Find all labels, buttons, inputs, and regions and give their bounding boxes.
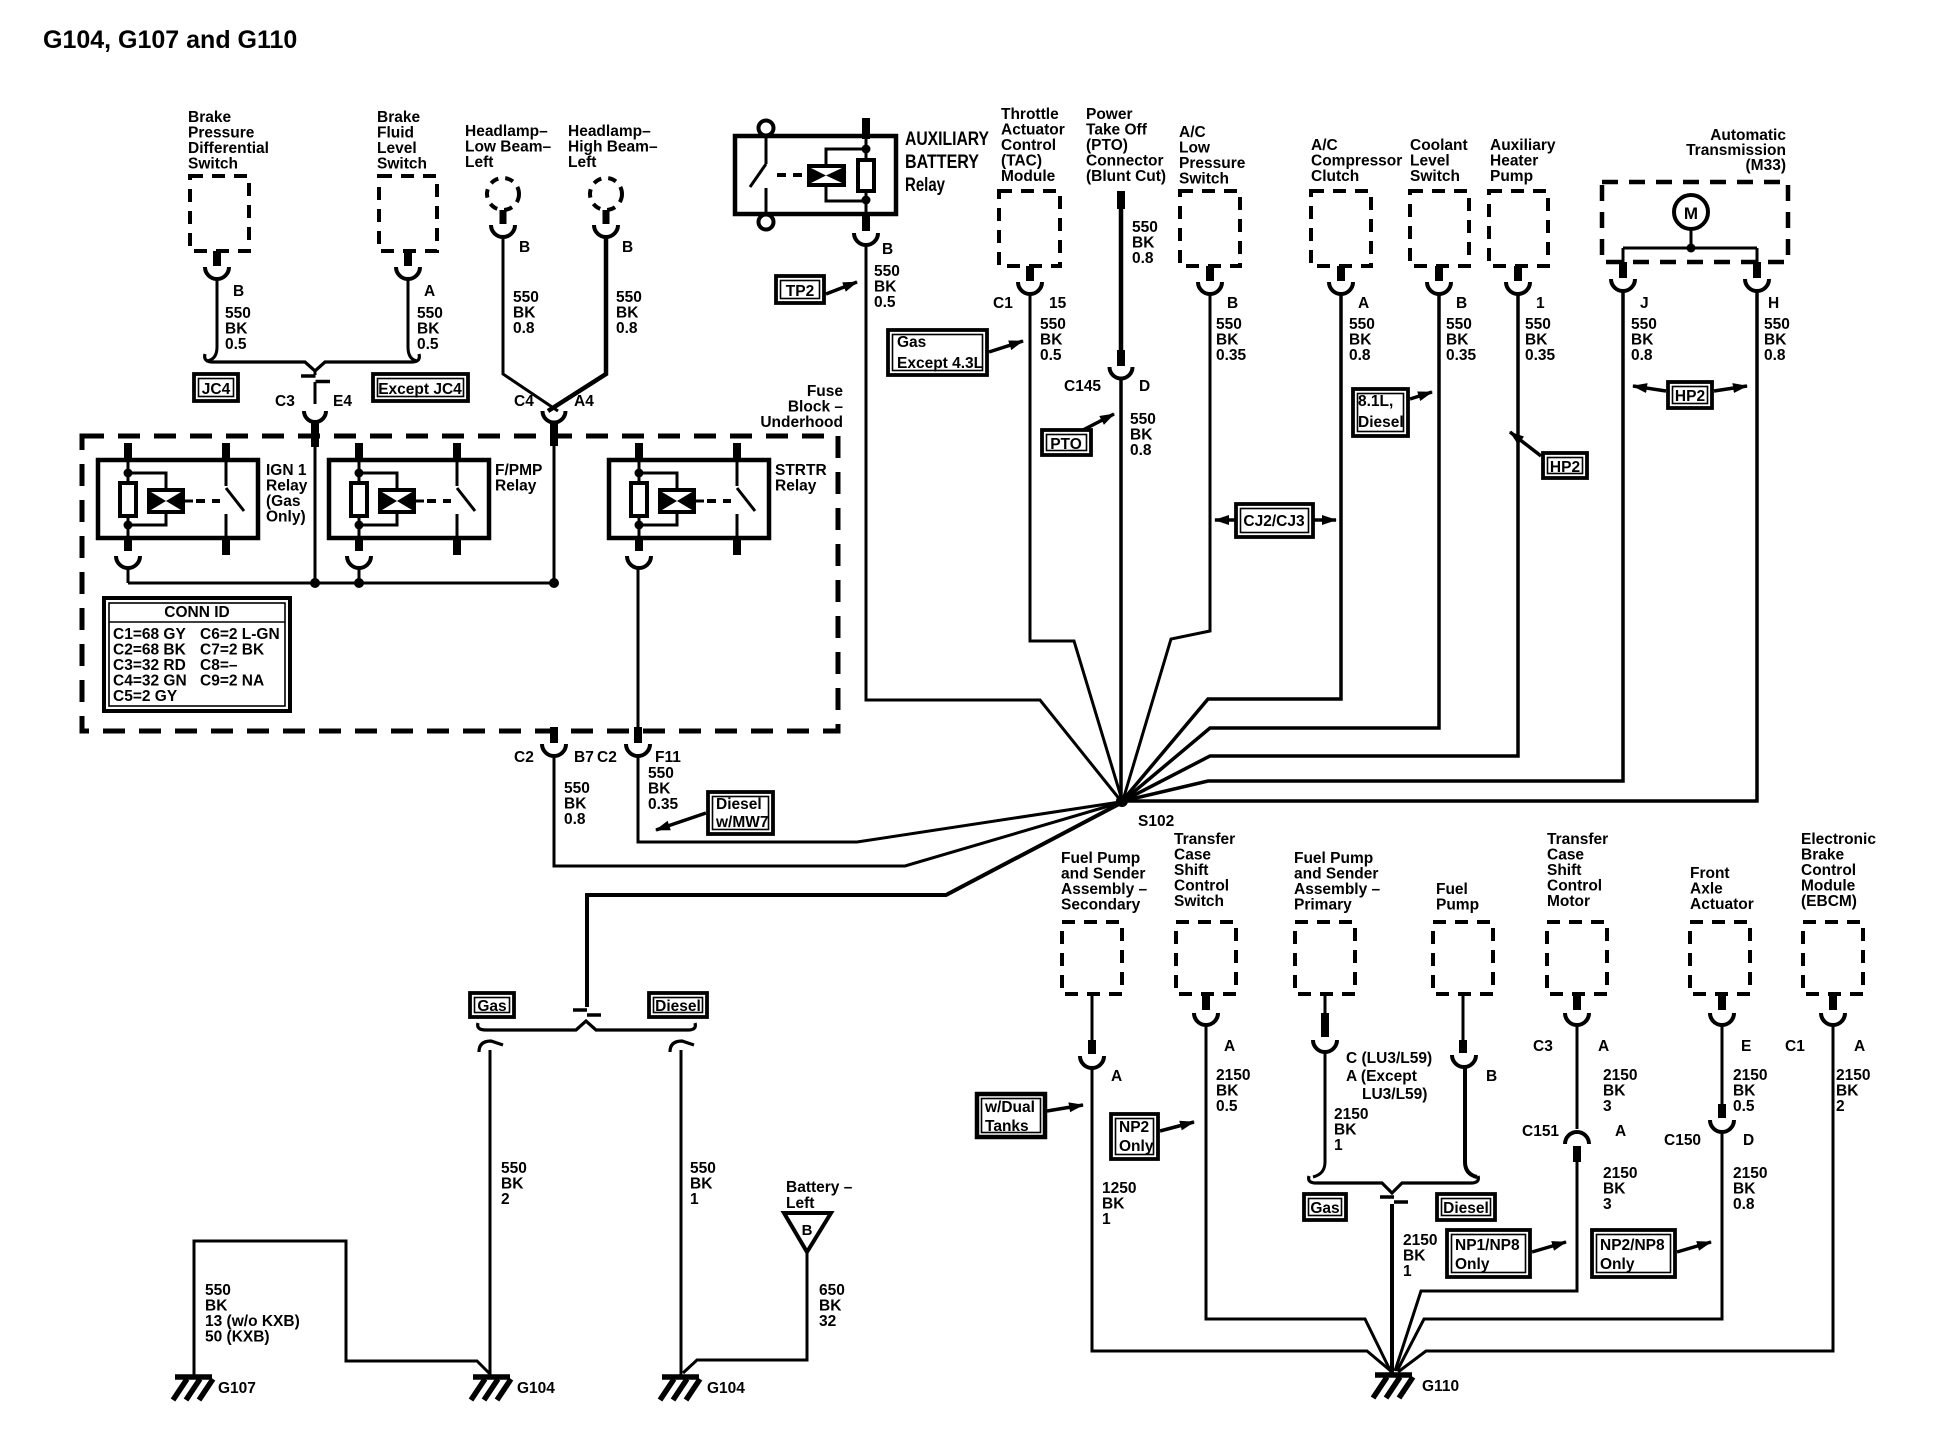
svg-text:1: 1	[1334, 1137, 1343, 1154]
wire label 550 BK 0.8 (J)	[1631, 316, 1657, 364]
svg-text:BK: BK	[1216, 332, 1239, 349]
svg-text:C1: C1	[1785, 1038, 1805, 1055]
svg-text:Heater: Heater	[1490, 153, 1538, 170]
svg-text:Pressure: Pressure	[188, 125, 255, 142]
svg-text:and Sender: and Sender	[1294, 866, 1378, 883]
svg-text:15: 15	[1049, 295, 1067, 312]
svg-text:50 (KXB): 50 (KXB)	[205, 1329, 270, 1346]
label box HP2 with arrow (aux heater pump)	[1510, 432, 1587, 478]
pin B label (high beam)	[622, 239, 633, 256]
svg-text:Brake: Brake	[1801, 847, 1844, 864]
svg-text:C4=32 GN: C4=32 GN	[113, 673, 187, 690]
brace joining fuel pump primary wires (Gas/Diesel)	[1309, 1176, 1479, 1193]
STRTR relay output wire inside fuse block	[637, 566, 640, 730]
wire 550 BK 0.8 transmission H to S102	[1123, 289, 1757, 801]
assembly: Fuel Pump and Sender Assembly - Primary	[1294, 850, 1381, 994]
wire 550 BK 2 gas branch to G104	[479, 1041, 503, 1376]
svg-text:Switch: Switch	[377, 156, 427, 173]
wire label 550 BK 0.5	[225, 305, 251, 353]
relay K1: IGN 1 Relay (Gas Only)	[98, 443, 308, 568]
svg-text:Case: Case	[1174, 847, 1211, 864]
lamp: Headlamp Low Beam Left	[465, 123, 552, 237]
svg-text:Electronic: Electronic	[1801, 831, 1876, 848]
wire 2150 BK 1 fuel pump primary to gas/diesel brace	[1313, 1050, 1325, 1177]
svg-text:G107: G107	[218, 1380, 256, 1397]
svg-text:650: 650	[819, 1282, 845, 1299]
fuse block underhood dashed enclosure	[82, 436, 838, 731]
wire label 2150 BK 0.5 (front axle)	[1733, 1067, 1767, 1115]
svg-text:BK: BK	[417, 321, 440, 338]
pin A label (transfer case switch)	[1224, 1038, 1235, 1055]
wire label 550 BK 0.8 (lower PTO)	[1130, 411, 1156, 459]
terminal labels C3 and A (transfer case motor)	[1533, 1038, 1609, 1055]
label box Diesel w/MW7 with arrow	[656, 792, 773, 834]
terminal labels C4 and A4	[514, 393, 594, 410]
ground label G107	[218, 1380, 256, 1397]
wire 550 BK 0.8 A/C compressor to S102	[1123, 292, 1341, 800]
svg-text:Transfer: Transfer	[1174, 831, 1235, 848]
svg-text:Take Off: Take Off	[1086, 122, 1148, 139]
svg-text:G104: G104	[517, 1380, 555, 1397]
svg-text:BK: BK	[1132, 235, 1155, 252]
label box TP2 with arrow	[776, 276, 857, 303]
wire label 2150 BK 3 (lower)	[1603, 1165, 1637, 1213]
wire 550 BK 0.8 PTO to S102	[1119, 377, 1123, 801]
svg-text:BK: BK	[1603, 1083, 1626, 1100]
svg-text:Diesel: Diesel	[1443, 1200, 1489, 1217]
wire label 550 BK 2	[501, 1160, 527, 1208]
svg-text:Gas: Gas	[1310, 1200, 1339, 1217]
svg-text:8.1L,: 8.1L,	[1358, 393, 1393, 410]
svg-text:C5=2 GY: C5=2 GY	[113, 688, 178, 705]
switch: A/C Low Pressure Switch	[1179, 124, 1246, 294]
terminal labels C1 and 15	[993, 295, 1067, 312]
svg-text:2150: 2150	[1836, 1067, 1870, 1084]
svg-text:Brake: Brake	[377, 109, 420, 126]
brace splitting to Gas and Diesel grounds	[478, 1021, 696, 1030]
label box 8.1L Diesel with arrow	[1353, 389, 1432, 436]
inline connector C145 pin D	[1110, 350, 1133, 379]
splice label S102	[1138, 813, 1174, 830]
svg-text:NP2/NP8: NP2/NP8	[1600, 1237, 1665, 1254]
svg-text:Fuel Pump: Fuel Pump	[1294, 850, 1373, 867]
label box Gas (left splitter)	[470, 993, 514, 1017]
svg-text:B: B	[1227, 295, 1238, 312]
wire label 550 BK 0.35	[648, 765, 679, 813]
svg-text:Except JC4: Except JC4	[378, 381, 462, 398]
wire 550 BK 0.35 A/C low pressure to S102	[1123, 292, 1210, 800]
svg-text:A: A	[1854, 1038, 1865, 1055]
wire label 550 BK 0.35	[1216, 316, 1247, 364]
svg-text:C8=–: C8=–	[200, 657, 238, 674]
svg-text:STRTR: STRTR	[775, 462, 827, 479]
splice break symbol above gas/diesel brace	[573, 1010, 601, 1015]
terminal labels C2 and B7	[514, 749, 594, 766]
splice S102 junction	[1116, 795, 1128, 807]
svg-text:Differential: Differential	[188, 140, 269, 157]
svg-text:Relay: Relay	[266, 478, 308, 495]
svg-text:2150: 2150	[1733, 1165, 1767, 1182]
wire label 550 BK 0.8	[513, 289, 539, 337]
svg-text:HP2: HP2	[1550, 459, 1580, 476]
svg-text:G110: G110	[1422, 1378, 1459, 1395]
inline connector pin A (fuel pump secondary)	[1080, 994, 1104, 1068]
switch: Coolant Level Switch	[1410, 137, 1469, 294]
svg-text:(M33): (M33)	[1746, 157, 1786, 174]
label box NP2/NP8 Only with arrow	[1592, 1230, 1711, 1277]
wire label 550 BK 0.5	[417, 305, 443, 353]
svg-text:Power: Power	[1086, 106, 1133, 123]
label box JC4	[194, 374, 238, 401]
title G104, G107 and G110	[43, 26, 297, 54]
label box CJ2/CJ3 with arrows both sides	[1215, 504, 1336, 537]
svg-text:Left: Left	[786, 1195, 814, 1212]
svg-text:C9=2 NA: C9=2 NA	[200, 673, 264, 690]
svg-text:Assembly –: Assembly –	[1294, 881, 1381, 898]
svg-text:(Blunt Cut): (Blunt Cut)	[1086, 168, 1166, 185]
svg-text:A: A	[1615, 1123, 1626, 1140]
svg-text:Diesel: Diesel	[716, 796, 762, 813]
svg-text:Fuel Pump: Fuel Pump	[1061, 850, 1140, 867]
wire 550 BK 0.5 from brake pressure switch to JC4 splice	[206, 277, 217, 361]
pin E label (front axle actuator)	[1741, 1038, 1751, 1055]
wire label 2150 BK 0.8	[1733, 1165, 1767, 1213]
pin B label (coolant level switch)	[1456, 295, 1467, 312]
svg-text:Axle: Axle	[1690, 881, 1723, 898]
relay K2: F/PMP Relay	[329, 443, 542, 568]
svg-text:Pump: Pump	[1436, 897, 1479, 914]
svg-text:Tanks: Tanks	[985, 1118, 1029, 1135]
motor: Transfer Case Shift Control Motor	[1547, 831, 1608, 1025]
svg-text:B: B	[622, 239, 633, 256]
svg-text:BK: BK	[1349, 332, 1372, 349]
wire label 550 BK 0.35	[1525, 316, 1556, 364]
wire 2150 BK 3 from C151 to G110	[1395, 1158, 1577, 1371]
label box HP2 with double arrows (transmission)	[1633, 382, 1747, 408]
load: A/C Compressor Clutch	[1311, 137, 1402, 294]
wire 550 BK 0.5 TAC to S102	[1030, 292, 1122, 800]
svg-text:0.35: 0.35	[1446, 347, 1477, 364]
svg-text:550: 550	[1132, 219, 1158, 236]
svg-text:0.8: 0.8	[1631, 347, 1653, 364]
pin B label (aux battery relay)	[882, 241, 893, 258]
wire label 2150 BK 1 (merged)	[1403, 1232, 1437, 1280]
svg-text:BK: BK	[1446, 332, 1469, 349]
label box PTO with arrow	[1042, 414, 1114, 455]
svg-text:Headlamp–: Headlamp–	[465, 123, 548, 140]
svg-text:A: A	[1224, 1038, 1235, 1055]
svg-text:BK: BK	[1040, 332, 1063, 349]
svg-text:2: 2	[1836, 1098, 1845, 1115]
svg-text:Case: Case	[1547, 847, 1584, 864]
svg-text:CONN ID: CONN ID	[164, 604, 229, 621]
svg-text:(EBCM): (EBCM)	[1801, 893, 1857, 910]
svg-text:0.5: 0.5	[225, 336, 247, 353]
svg-text:TP2: TP2	[786, 283, 814, 300]
terminal label C (LU3/L59) A (Except LU3/L59)	[1346, 1050, 1432, 1103]
CONN ID table	[104, 598, 290, 711]
svg-text:Brake: Brake	[188, 109, 231, 126]
svg-text:Coolant: Coolant	[1410, 137, 1468, 154]
svg-text:A: A	[1111, 1068, 1122, 1085]
svg-text:550: 550	[1525, 316, 1551, 333]
svg-text:Shift: Shift	[1174, 862, 1208, 879]
svg-text:D: D	[1139, 378, 1150, 395]
svg-text:550: 550	[501, 1160, 527, 1177]
svg-text:BK: BK	[1130, 427, 1153, 444]
svg-text:Actuator: Actuator	[1690, 896, 1754, 913]
svg-text:BK: BK	[1525, 332, 1548, 349]
pin B label (brake pressure switch)	[233, 283, 244, 300]
svg-text:Only: Only	[1455, 1256, 1490, 1273]
svg-text:Battery –: Battery –	[786, 1179, 853, 1196]
svg-text:550: 550	[1446, 316, 1472, 333]
svg-text:B7: B7	[574, 749, 594, 766]
svg-text:A: A	[1358, 295, 1369, 312]
svg-text:3: 3	[1603, 1196, 1612, 1213]
svg-text:JC4: JC4	[202, 381, 231, 398]
wire from JC4 splice to fuse block terminal C3/E4	[304, 371, 326, 583]
svg-text:Compressor: Compressor	[1311, 153, 1402, 170]
svg-text:BK: BK	[513, 305, 536, 322]
terminal labels C150 and D	[1664, 1132, 1754, 1149]
pin B label (low beam)	[519, 239, 530, 256]
svg-text:0.35: 0.35	[648, 796, 679, 813]
svg-text:A: A	[424, 283, 435, 300]
svg-text:2150: 2150	[1733, 1067, 1767, 1084]
svg-text:0.8: 0.8	[1349, 347, 1371, 364]
svg-text:550: 550	[1764, 316, 1790, 333]
svg-text:Transfer: Transfer	[1547, 831, 1608, 848]
svg-text:550: 550	[690, 1160, 716, 1177]
wire 550 BK 0.8 transmission J to S102	[1123, 289, 1623, 801]
svg-text:Connector: Connector	[1086, 153, 1164, 170]
svg-text:Switch: Switch	[188, 156, 238, 173]
terminal labels C151 and A	[1522, 1123, 1626, 1140]
svg-text:C4: C4	[514, 393, 534, 410]
wire 550 BK 0.35 from F11 to S102	[638, 754, 1120, 842]
pin B label (A/C low pressure)	[1227, 295, 1238, 312]
splice break symbol below brace	[1380, 1197, 1408, 1202]
svg-text:0.8: 0.8	[616, 320, 638, 337]
svg-text:BK: BK	[1216, 1083, 1239, 1100]
label box Diesel (left splitter)	[649, 993, 707, 1017]
svg-text:Diesel: Diesel	[655, 998, 701, 1015]
label box w/Dual Tanks with arrow	[977, 1094, 1083, 1137]
svg-text:3: 3	[1603, 1098, 1612, 1115]
label box Gas (right splitter)	[1304, 1194, 1346, 1220]
wire 1250 BK 1 fuel pump secondary to G110	[1092, 1066, 1392, 1372]
svg-text:IGN 1: IGN 1	[266, 462, 307, 479]
svg-text:Relay: Relay	[495, 478, 537, 495]
fuse block exit C2/B7 connector	[542, 727, 566, 756]
svg-text:B: B	[519, 239, 530, 256]
svg-text:550: 550	[225, 305, 251, 322]
terminal labels C145 and D	[1064, 378, 1150, 395]
wire label 550 BK 0.8 (H)	[1764, 316, 1790, 364]
terminal labels C1 and A (EBCM)	[1785, 1038, 1865, 1055]
relay K3: STRTR Relay	[609, 443, 827, 568]
wire label 550 BK 0.35	[1446, 316, 1477, 364]
svg-text:BK: BK	[1403, 1248, 1426, 1265]
svg-text:(TAC): (TAC)	[1001, 153, 1042, 170]
module: Throttle Actuator Control (TAC) Module	[999, 106, 1065, 294]
wire 550 BK 0.35 aux heater pump to S102	[1123, 292, 1518, 801]
svg-text:0.8: 0.8	[1130, 442, 1152, 459]
splice break symbol on E4 wire	[301, 376, 330, 382]
ground G104 (diesel)	[660, 1377, 700, 1400]
svg-text:BK: BK	[819, 1298, 842, 1315]
svg-text:C (LU3/L59): C (LU3/L59)	[1346, 1050, 1432, 1067]
svg-text:NP2: NP2	[1119, 1119, 1149, 1136]
wire label 550 BK 1	[690, 1160, 716, 1208]
svg-text:C3: C3	[275, 393, 295, 410]
svg-text:G104, G107 and G110: G104, G107 and G110	[43, 26, 297, 54]
svg-text:and Sender: and Sender	[1061, 866, 1145, 883]
svg-text:BK: BK	[1733, 1181, 1756, 1198]
svg-text:Level: Level	[377, 140, 417, 157]
svg-text:Fuel: Fuel	[1436, 881, 1468, 898]
svg-text:C145: C145	[1064, 378, 1101, 395]
svg-text:1: 1	[690, 1191, 699, 1208]
svg-text:BK: BK	[648, 781, 671, 798]
svg-text:Level: Level	[1410, 153, 1450, 170]
svg-text:Headlamp–: Headlamp–	[568, 123, 651, 140]
svg-text:BK: BK	[1764, 332, 1787, 349]
svg-text:Relay: Relay	[775, 478, 817, 495]
svg-text:C3: C3	[1533, 1038, 1553, 1055]
wire label 2150 BK 2	[1836, 1067, 1870, 1115]
svg-text:B: B	[1486, 1068, 1497, 1085]
svg-text:0.35: 0.35	[1216, 347, 1247, 364]
lamp: Headlamp High Beam Left	[568, 123, 658, 237]
svg-text:Fluid: Fluid	[377, 125, 414, 142]
svg-text:1: 1	[1536, 295, 1545, 312]
wire label 2150 BK 0.5	[1216, 1067, 1250, 1115]
svg-text:BK: BK	[874, 279, 897, 296]
svg-text:550: 550	[1216, 316, 1242, 333]
svg-text:AUXILIARY: AUXILIARY	[905, 129, 989, 150]
svg-text:2150: 2150	[1334, 1106, 1368, 1123]
battery terminal: Battery - Left	[784, 1179, 853, 1252]
svg-text:S102: S102	[1138, 813, 1174, 830]
svg-text:BK: BK	[205, 1298, 228, 1315]
svg-text:Pump: Pump	[1490, 168, 1533, 185]
svg-text:0.8: 0.8	[564, 811, 586, 828]
svg-text:(PTO): (PTO)	[1086, 137, 1128, 154]
fuse block exit C2/F11 connector	[626, 727, 650, 756]
svg-text:Pressure: Pressure	[1179, 155, 1246, 172]
svg-text:BK: BK	[225, 321, 248, 338]
svg-text:Actuator: Actuator	[1001, 122, 1065, 139]
wire 550 BK 0.35 coolant level to S102	[1123, 292, 1439, 801]
wire 2150 BK 1 merged to G110	[1390, 1204, 1394, 1373]
wire 550 BK 0.8 from B7 to S102	[554, 754, 1119, 866]
label box NP1/NP8 Only with arrow	[1447, 1230, 1566, 1277]
wire 550 BK 0.8 low beam to C4/A4 junction	[503, 235, 558, 411]
svg-text:C1: C1	[993, 295, 1013, 312]
svg-text:Left: Left	[568, 154, 596, 171]
svg-text:J: J	[1640, 295, 1649, 312]
wire label 1250 BK 1	[1102, 1180, 1136, 1228]
wire label 550 BK 0.8 (upper PTO)	[1132, 219, 1158, 267]
pin B label (fuel pump)	[1486, 1068, 1497, 1085]
svg-text:B: B	[233, 283, 244, 300]
module: Electronic Brake Control Module (EBCM)	[1801, 831, 1876, 1025]
wire 2150 BK 2 EBCM to G110	[1398, 1023, 1833, 1372]
svg-text:550: 550	[648, 765, 674, 782]
svg-text:A (Except: A (Except	[1346, 1068, 1417, 1085]
ground label G104 (diesel)	[707, 1380, 745, 1397]
svg-text:Left: Left	[465, 154, 493, 171]
svg-text:Only: Only	[1119, 1138, 1154, 1155]
svg-text:Switch: Switch	[1174, 893, 1224, 910]
svg-text:LU3/L59): LU3/L59)	[1362, 1086, 1427, 1103]
svg-text:Only: Only	[1600, 1256, 1635, 1273]
label box Diesel (right splitter)	[1437, 1194, 1495, 1220]
svg-text:BK: BK	[564, 796, 587, 813]
ground G104 (gas)	[471, 1377, 511, 1400]
svg-text:Control: Control	[1801, 862, 1856, 879]
pump: Auxiliary Heater Pump	[1489, 137, 1556, 294]
svg-text:BATTERY: BATTERY	[905, 152, 979, 173]
svg-text:BK: BK	[616, 305, 639, 322]
inline connector pin B (fuel pump)	[1452, 994, 1476, 1067]
ground label G104 (gas)	[517, 1380, 555, 1397]
svg-text:550: 550	[564, 780, 590, 797]
relay: AUXILIARY BATTERY Relay	[735, 118, 989, 245]
pin 1 label (aux heater pump)	[1536, 295, 1545, 312]
svg-text:Shift: Shift	[1547, 862, 1581, 879]
svg-text:BK: BK	[690, 1176, 713, 1193]
wire fuel pump to gas/diesel brace	[1465, 1065, 1477, 1177]
wire 550 BK 0.5 aux battery relay to S102	[866, 243, 1121, 801]
pin H label (transmission)	[1768, 295, 1779, 312]
svg-text:0.5: 0.5	[1040, 347, 1062, 364]
label box Except JC4	[373, 374, 468, 401]
terminal labels C3 and E4	[275, 393, 352, 410]
wire 550 BK 0.8 high beam to C4/A4 junction	[548, 235, 606, 411]
svg-text:Diesel: Diesel	[1358, 414, 1404, 431]
svg-text:Clutch: Clutch	[1311, 168, 1359, 185]
svg-text:2150: 2150	[1603, 1067, 1637, 1084]
svg-text:BK: BK	[1102, 1196, 1125, 1213]
wire label 550 BK 0.8	[616, 289, 642, 337]
wire 2150 BK 0.8 from C150 to G110	[1397, 1130, 1722, 1371]
pump: Fuel Pump	[1433, 881, 1493, 994]
svg-text:0.8: 0.8	[1733, 1196, 1755, 1213]
ground G110	[1373, 1375, 1413, 1398]
pin J label (transmission)	[1640, 295, 1649, 312]
svg-text:(Gas: (Gas	[266, 493, 300, 510]
actuator: Front Axle Actuator	[1690, 865, 1754, 1025]
svg-text:F11: F11	[655, 749, 681, 766]
wire label 550 BK 13 (w/o KXB) 50 (KXB)	[205, 1282, 300, 1346]
svg-text:Low: Low	[1179, 140, 1211, 157]
pin A label (brake fluid switch)	[424, 283, 435, 300]
motor assembly: Automatic Transmission (M33)	[1602, 127, 1788, 291]
svg-text:Control: Control	[1001, 137, 1056, 154]
wire front axle actuator to C150	[1721, 1023, 1724, 1107]
wire 650 BK 32 battery to G104	[683, 1252, 807, 1373]
svg-text:B: B	[882, 241, 893, 258]
inline connector pin C/A (fuel pump primary)	[1313, 994, 1337, 1052]
wire 550 BK 13/50 from G107 loop to G104	[194, 1241, 490, 1375]
wire label 550 BK 0.5	[874, 263, 900, 311]
svg-text:13 (w/o KXB): 13 (w/o KXB)	[205, 1313, 300, 1330]
svg-text:0.8: 0.8	[1764, 347, 1786, 364]
svg-text:Throttle: Throttle	[1001, 106, 1059, 123]
